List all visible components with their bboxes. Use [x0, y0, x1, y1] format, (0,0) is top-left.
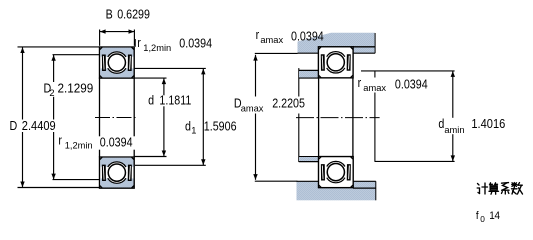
svg-text:2.4409: 2.4409 — [22, 118, 56, 133]
ext line d1 bottom — [135, 164, 206, 166]
svg-text:r: r — [358, 76, 362, 90]
dim line B — [100, 31, 135, 33]
arrows d — [162, 78, 166, 84]
leader r1,2 top — [134, 39, 136, 47]
shaft end face line right — [374, 71, 376, 161]
svg-text:1: 1 — [191, 125, 196, 135]
svg-text:D: D — [10, 119, 18, 133]
svg-text:1.4016: 1.4016 — [471, 116, 505, 131]
svg-text:0.0394: 0.0394 — [395, 78, 428, 92]
svg-text:d: d — [185, 120, 191, 134]
housing band top bottom edge — [298, 52, 376, 54]
housing band top (blue, slanted broken edge top-left) — [298, 33, 376, 53]
svg-text:amin: amin — [444, 125, 464, 135]
label backgrounds (white boxes over lines) — [8, 82, 238, 150]
ext line d top — [134, 77, 166, 79]
bore silhouette lines between sections (right view) — [319, 78, 353, 157]
text labels left view — [10, 8, 237, 151]
arrows d1 — [201, 69, 205, 75]
dim line D — [22, 47, 24, 187]
svg-text:2.1299: 2.1299 — [58, 81, 94, 95]
svg-text:amax: amax — [260, 35, 283, 45]
arrows da — [451, 71, 455, 77]
svg-text:amax: amax — [241, 104, 264, 114]
svg-text:0: 0 — [480, 214, 485, 224]
svg-text:1.5906: 1.5906 — [204, 120, 237, 134]
arrows D — [20, 47, 24, 53]
housing band bottom right edge — [375, 181, 377, 200]
bore silhouette lines between sections — [100, 78, 135, 158]
dim line d1 — [202, 69, 204, 165]
svg-text:f: f — [476, 210, 479, 222]
housing bore line top right — [353, 46, 375, 48]
ext line D bottom — [18, 187, 100, 189]
char ji 计 — [477, 183, 487, 194]
ext line D2 top — [53, 54, 100, 56]
arrowheads left view — [20, 29, 205, 187]
svg-text:r: r — [58, 134, 62, 148]
text labels right view — [234, 28, 506, 224]
chinese text 计算系数 drawn as strokes — [477, 183, 522, 195]
svg-text:4: 4 — [495, 210, 501, 222]
housing band top right edge — [374, 33, 376, 53]
ext line da top — [361, 70, 455, 72]
arrows Da — [253, 55, 257, 61]
svg-text:2: 2 — [49, 88, 54, 98]
dimension lines right view — [255, 53, 455, 181]
ext line d bottom — [134, 156, 167, 158]
ext line D2 bottom — [53, 179, 100, 181]
ext line Da top — [255, 52, 298, 54]
svg-text:1.1811: 1.1811 — [159, 94, 191, 108]
centerline left view — [95, 117, 137, 119]
svg-text:1,2min: 1,2min — [65, 141, 93, 151]
bearing section top (right view) — [318, 47, 353, 78]
dim line da — [452, 71, 454, 161]
svg-text:r: r — [256, 28, 260, 42]
shaft shoulder block bottom left (blue) — [299, 157, 319, 162]
char xi 系 — [502, 183, 510, 194]
ext line d1 top — [134, 67, 206, 69]
svg-text:0.0394: 0.0394 — [100, 136, 133, 150]
label backgrounds right view — [233, 78, 507, 135]
housing bore line bottom right — [353, 187, 376, 189]
ext line da bottom — [375, 160, 455, 162]
dim line d — [163, 79, 165, 157]
svg-text:0.0394: 0.0394 — [179, 37, 212, 51]
centerline right view — [296, 117, 380, 119]
ext line D top — [18, 46, 100, 48]
dim line D2 — [53, 55, 55, 179]
arrowheads right view — [253, 55, 455, 180]
arrows D2 — [51, 55, 55, 61]
dimension extension lines (left view) — [18, 30, 206, 188]
char shu 数 — [512, 183, 523, 194]
ext line B right — [133, 30, 135, 46]
svg-text:d: d — [148, 94, 154, 108]
svg-text:0.6299: 0.6299 — [117, 8, 150, 22]
ext line Da bottom — [255, 180, 298, 182]
ext line B left — [99, 30, 101, 46]
svg-text:2.2205: 2.2205 — [272, 97, 305, 111]
svg-text:B: B — [106, 8, 113, 22]
svg-text:r: r — [137, 36, 141, 50]
svg-text:0.0394: 0.0394 — [291, 30, 324, 44]
bearing section bottom (left view) — [100, 157, 135, 188]
dim line Da — [255, 55, 257, 180]
shaft shoulder block top left (blue) — [299, 70, 319, 78]
housing band bottom top edge — [297, 180, 376, 182]
bearing section bottom (right view) — [319, 157, 354, 188]
shaft left face line — [298, 68, 300, 162]
svg-text:1,2min: 1,2min — [143, 43, 171, 53]
svg-text:amax: amax — [363, 83, 386, 93]
arrows B — [100, 29, 106, 33]
housing band bottom (blue) — [297, 181, 376, 200]
char suan 算 — [489, 183, 499, 194]
bearing section top (left view) — [100, 47, 135, 78]
